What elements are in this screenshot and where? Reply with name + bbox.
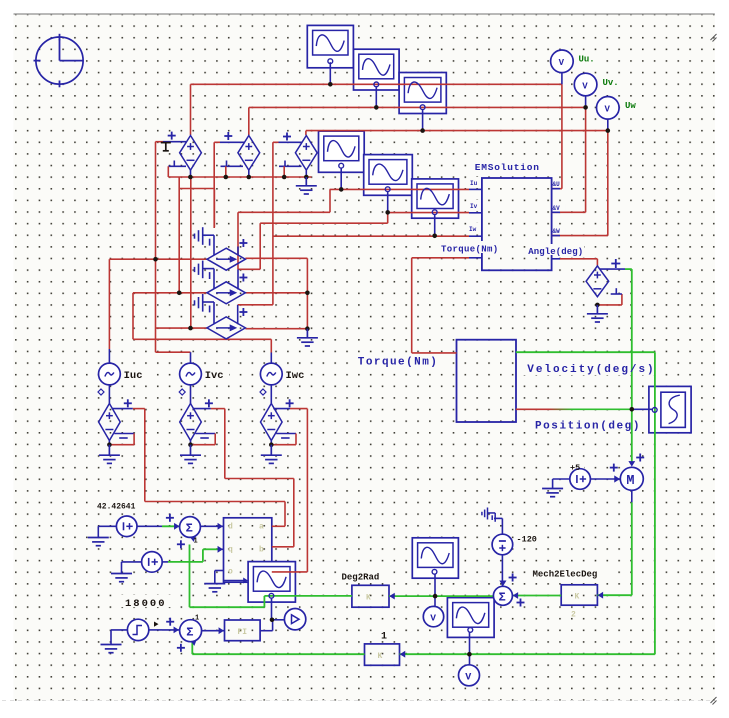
svg-text:K: K [378,652,383,661]
svg-text:b: b [259,546,264,555]
svg-text:PI: PI [238,628,248,637]
svg-text:EMSolution: EMSolution [475,162,540,173]
svg-text:1: 1 [381,632,387,643]
svg-text:Mech2ElecDeg: Mech2ElecDeg [533,570,598,580]
svg-text:Angle(deg): Angle(deg) [528,247,583,257]
svg-text:V: V [559,58,565,68]
svg-text:V: V [582,81,588,91]
svg-text:1: 1 [194,538,198,546]
svg-text:Σ: Σ [186,625,193,639]
svg-text:V: V [605,105,611,115]
svg-text:Iu: Iu [470,180,478,187]
svg-text:&V: &V [553,205,561,212]
svg-text:d: d [228,523,233,532]
svg-text:Σ: Σ [499,590,506,604]
svg-text:q: q [228,546,233,555]
svg-text:18000: 18000 [125,598,167,610]
svg-text:Σ: Σ [186,522,193,536]
svg-text:Iw: Iw [469,226,477,233]
svg-text:Uv.: Uv. [603,78,619,88]
svg-text:2: 2 [571,611,576,620]
svg-text:Velocity(deg/s): Velocity(deg/s) [527,364,655,376]
svg-text:Iwc: Iwc [286,370,305,382]
svg-text:Iuc: Iuc [124,370,143,382]
svg-text:42.42641: 42.42641 [97,503,136,512]
svg-text:Torque(Nm): Torque(Nm) [441,244,499,254]
svg-text:1: 1 [195,615,199,623]
svg-text:&U: &U [553,181,561,188]
svg-text:Position(deg): Position(deg) [535,421,641,433]
svg-text:V: V [465,673,471,684]
svg-text:Iv: Iv [470,203,478,210]
svg-text:K: K [366,594,371,603]
svg-text:&W: &W [553,228,561,235]
svg-text:-120: -120 [517,535,537,545]
svg-text:K: K [575,593,580,602]
svg-text:+5: +5 [570,463,580,473]
svg-text:a: a [259,523,264,532]
svg-text:Deg2Rad: Deg2Rad [342,573,380,583]
svg-text:o: o [228,568,233,577]
svg-text:V: V [430,613,436,624]
svg-text:Ivc: Ivc [205,370,224,382]
svg-text:Torque(Nm): Torque(Nm) [358,357,439,369]
svg-text:M: M [626,474,634,489]
svg-text:Uw: Uw [625,101,636,111]
svg-text:Uu.: Uu. [579,55,595,65]
